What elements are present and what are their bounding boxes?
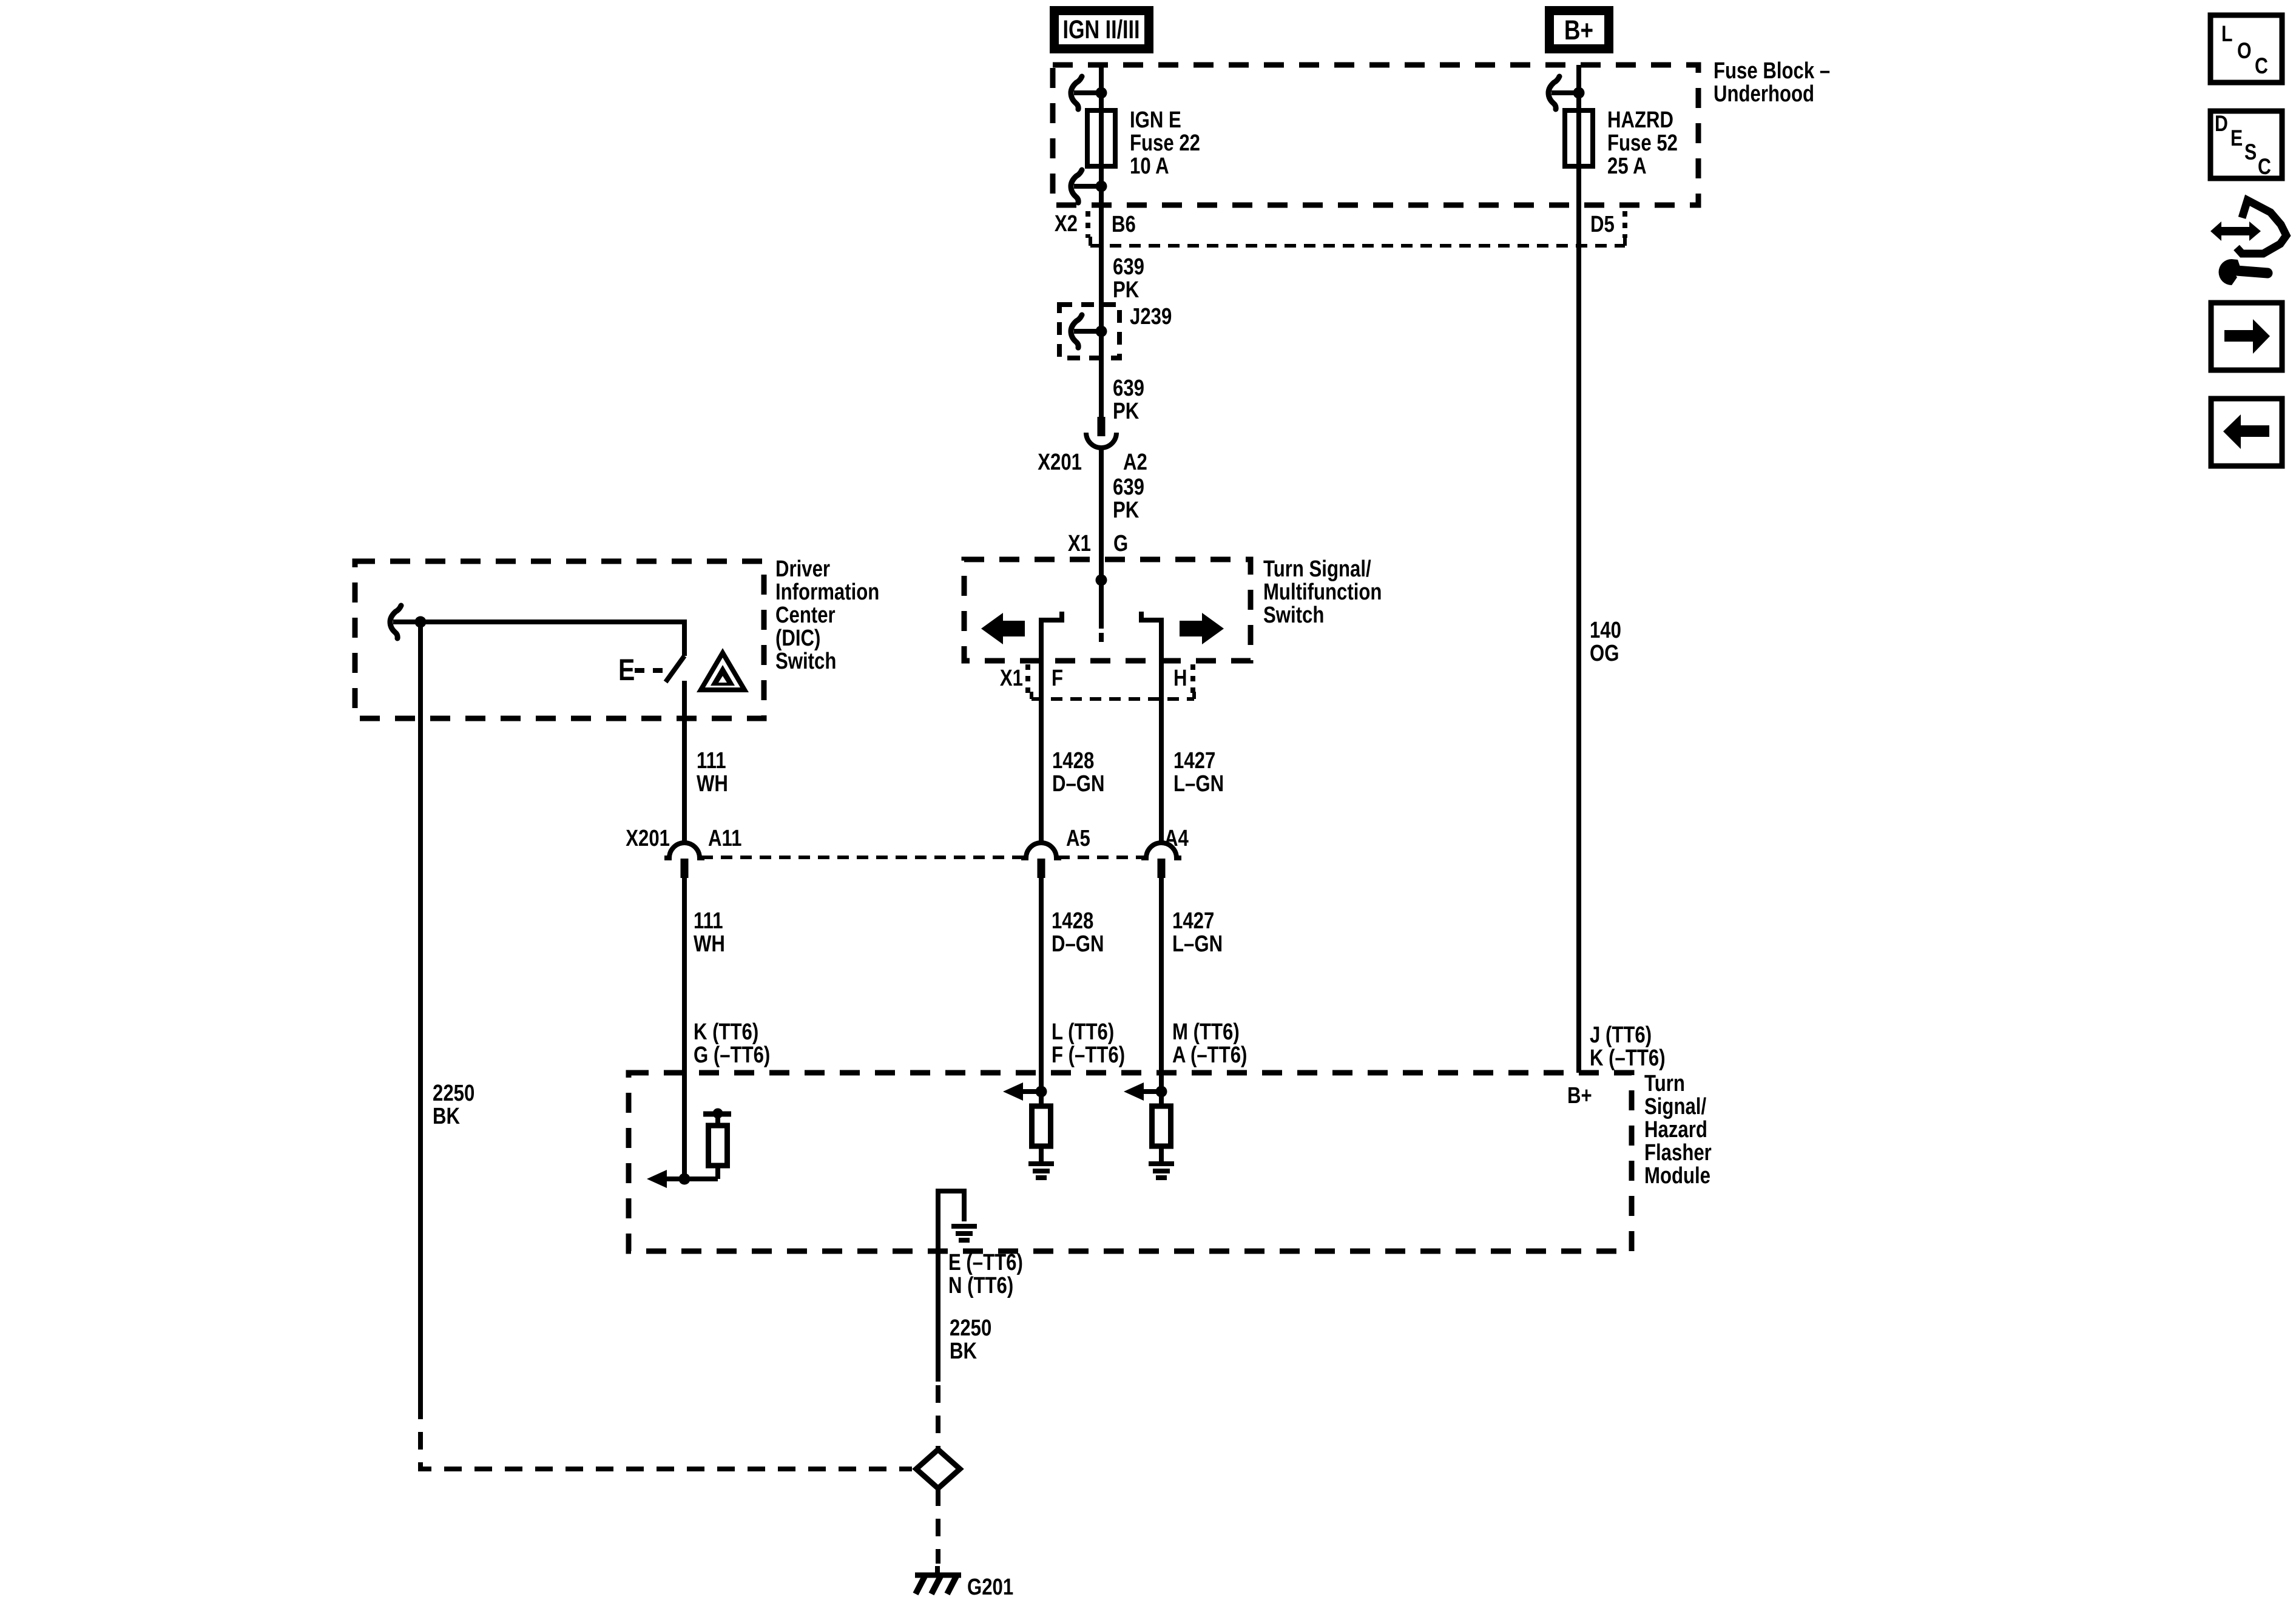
svg-text:A (–TT6): A (–TT6) <box>1172 1042 1247 1068</box>
ground G201 symbol <box>915 1566 961 1594</box>
svg-text:111: 111 <box>694 908 723 934</box>
wire: 2250 BK from module <box>936 1251 940 1382</box>
connector X1 fine dashed boundary <box>1032 692 1194 699</box>
svg-text:C: C <box>2258 154 2271 180</box>
module L branch output arrow <box>1003 1082 1041 1101</box>
svg-text:PK: PK <box>1113 498 1139 523</box>
svg-text:G: G <box>1113 531 1128 556</box>
splice J239 dashed box <box>1059 305 1119 358</box>
svg-text:Fuse 22: Fuse 22 <box>1130 130 1200 156</box>
svg-text:Module: Module <box>1644 1163 1710 1189</box>
splice J239 clamp <box>1071 315 1107 348</box>
svg-text:(DIC): (DIC) <box>775 626 820 651</box>
wire label 639 PK middle <box>1113 376 1144 424</box>
svg-text:BK: BK <box>950 1338 977 1364</box>
legend left arrow box <box>2211 399 2282 466</box>
svg-text:J239: J239 <box>1130 304 1172 329</box>
svg-text:Fuse 52: Fuse 52 <box>1607 130 1678 156</box>
turn signal multifunction switch dashed box <box>964 559 1251 661</box>
clamp tap below fuse 22 <box>1071 170 1107 203</box>
splice diamond <box>916 1450 960 1488</box>
svg-text:O: O <box>2237 38 2252 64</box>
pin label K G <box>694 1019 770 1068</box>
wire label 1428 D-GN upper <box>1052 748 1105 797</box>
dashed wire left corner to splice <box>420 1402 912 1469</box>
switch contact F side <box>1041 612 1062 844</box>
module M branch resistor <box>1152 1106 1171 1146</box>
svg-text:A4: A4 <box>1164 826 1189 851</box>
svg-text:L (TT6): L (TT6) <box>1052 1019 1114 1045</box>
wire: 111 WH lower <box>682 878 687 1179</box>
fuse IGN E Fuse 22 10A <box>1087 110 1115 166</box>
svg-text:1427: 1427 <box>1172 908 1214 934</box>
wire label 639 PK lower <box>1113 474 1144 523</box>
wire: B+ feed vertical at fuse 52 <box>1576 65 1581 1073</box>
svg-text:A11: A11 <box>708 826 741 851</box>
svg-text:E: E <box>618 653 635 687</box>
svg-text:1428: 1428 <box>1052 748 1094 774</box>
wire label 2250 BK left <box>433 1081 474 1129</box>
legend DESC box <box>2210 111 2282 180</box>
fuse HAZRD Fuse 52 25A <box>1565 110 1593 166</box>
svg-text:L–GN: L–GN <box>1172 931 1223 957</box>
svg-text:Hazard: Hazard <box>1644 1117 1707 1143</box>
left turn arrow <box>981 613 1025 644</box>
wire: 1428 D-GN lower <box>1039 878 1044 1106</box>
label Turn Signal/Hazard Flasher Module <box>1644 1071 1712 1189</box>
switch pole wire with junction dot <box>1096 559 1107 642</box>
DIC clamp terminal <box>390 606 427 638</box>
wire label 1427 L-GN lower <box>1172 908 1223 957</box>
wire label 639 PK upper <box>1113 254 1144 303</box>
svg-text:A5: A5 <box>1066 826 1090 851</box>
DIC switch blade (open) <box>666 656 684 682</box>
svg-text:X201: X201 <box>626 826 670 851</box>
connector X201 fine dashed line segment A5-A4 <box>1058 856 1144 859</box>
module M branch output arrow <box>1124 1082 1161 1101</box>
svg-text:D–GN: D–GN <box>1052 771 1105 797</box>
connector X201 A5 cup and pin <box>1021 843 1061 878</box>
dashed wire to splice <box>936 1385 940 1448</box>
svg-text:PK: PK <box>1113 277 1139 303</box>
pin label L F <box>1052 1019 1125 1068</box>
svg-text:J (TT6): J (TT6) <box>1590 1022 1652 1048</box>
svg-text:G (–TT6): G (–TT6) <box>694 1042 770 1068</box>
svg-text:D: D <box>2215 111 2228 137</box>
wire label 1428 D-GN lower <box>1052 908 1104 957</box>
svg-text:639: 639 <box>1113 254 1144 280</box>
legend right arrow box <box>2211 303 2282 370</box>
legend repair icon panel outline <box>2237 200 2286 254</box>
svg-text:25 A: 25 A <box>1607 154 1647 179</box>
svg-text:PK: PK <box>1113 399 1139 424</box>
label IGN E Fuse 22 10 A <box>1130 107 1200 179</box>
wire label 111 WH lower <box>694 908 725 957</box>
wire label 1427 L-GN upper <box>1173 748 1224 797</box>
connector X201 pin A2: female cup <box>1086 433 1116 448</box>
svg-text:WH: WH <box>697 771 728 797</box>
connector X201 row labels <box>626 826 1189 851</box>
module internal ground hook wire <box>938 1191 964 1251</box>
connector X201 A4 cup and pin <box>1141 843 1181 878</box>
wire: left 2250 BK vertical solid <box>418 622 423 1402</box>
svg-text:D–GN: D–GN <box>1052 931 1104 957</box>
svg-text:K (TT6): K (TT6) <box>694 1019 758 1045</box>
svg-text:WH: WH <box>694 931 725 957</box>
module K branch resistor <box>709 1126 728 1166</box>
legend repair icon double arrow <box>2210 221 2261 241</box>
svg-text:B6: B6 <box>1112 212 1136 237</box>
labels X1 G <box>1068 531 1128 556</box>
svg-text:Center: Center <box>775 603 836 628</box>
svg-text:Driver: Driver <box>775 556 830 582</box>
svg-text:A2: A2 <box>1123 450 1147 475</box>
connector X201 pin A2: male pin <box>1098 417 1106 436</box>
module K branch terminal bar with dot <box>703 1109 731 1119</box>
module K branch junction dot <box>679 1173 690 1185</box>
svg-text:140: 140 <box>1590 618 1621 643</box>
svg-text:Multifunction: Multifunction <box>1263 579 1382 605</box>
module L branch resistor <box>1032 1106 1051 1146</box>
module K branch output arrow <box>647 1170 667 1188</box>
connector X2 pin B6 labels <box>1055 211 1136 237</box>
connector X1 F H labels <box>1000 666 1187 691</box>
svg-text:Turn: Turn <box>1644 1071 1685 1096</box>
svg-text:IGN E: IGN E <box>1130 107 1181 133</box>
power feed box B+ <box>1550 11 1609 49</box>
label Fuse Block - Underhood <box>1714 58 1830 107</box>
wire label 111 WH upper <box>697 748 728 797</box>
module L branch ground <box>1028 1146 1054 1178</box>
svg-text:OG: OG <box>1590 641 1619 666</box>
svg-text:M (TT6): M (TT6) <box>1172 1019 1240 1045</box>
svg-text:D5: D5 <box>1590 212 1615 237</box>
pin label E N <box>948 1250 1023 1298</box>
svg-text:S: S <box>2244 140 2257 165</box>
svg-text:Signal/: Signal/ <box>1644 1094 1706 1119</box>
labels X201 A2 <box>1038 450 1147 475</box>
connector D5 dotted separator <box>1622 211 1627 238</box>
module L branch junction dot <box>1036 1086 1047 1098</box>
svg-text:Fuse Block –: Fuse Block – <box>1714 58 1830 84</box>
label HAZRD Fuse 52 25 A <box>1607 107 1678 179</box>
legend LOC box <box>2210 15 2282 83</box>
svg-text:L: L <box>2221 21 2233 47</box>
svg-text:1427: 1427 <box>1173 748 1215 774</box>
svg-text:IGN II/III: IGN II/III <box>1062 15 1140 44</box>
svg-text:HAZRD: HAZRD <box>1607 107 1673 133</box>
label Turn Signal/Multifunction Switch <box>1263 556 1382 628</box>
svg-text:1428: 1428 <box>1052 908 1093 934</box>
svg-text:B+: B+ <box>1567 1083 1592 1109</box>
pin label M A <box>1172 1019 1247 1068</box>
DIC switch feed wire and corner <box>420 622 684 656</box>
svg-text:N (TT6): N (TT6) <box>948 1273 1013 1298</box>
svg-text:Turn Signal/: Turn Signal/ <box>1263 556 1371 582</box>
svg-text:BK: BK <box>433 1104 460 1129</box>
svg-text:H: H <box>1173 666 1187 691</box>
module internal ground symbol <box>951 1226 977 1240</box>
module M branch junction dot <box>1156 1086 1167 1098</box>
svg-text:639: 639 <box>1113 474 1144 500</box>
svg-text:E (–TT6): E (–TT6) <box>948 1250 1023 1275</box>
switch contact H side <box>1141 612 1161 844</box>
svg-text:Switch: Switch <box>775 649 836 674</box>
svg-text:K (–TT6): K (–TT6) <box>1590 1045 1666 1071</box>
connector X201 fine dashed line segment A11-A5 <box>701 856 1024 859</box>
svg-text:111: 111 <box>697 748 726 774</box>
connector X201 A11 cup and pin <box>664 843 704 878</box>
svg-text:Information: Information <box>775 579 879 605</box>
svg-text:E: E <box>2230 126 2243 151</box>
label Driver Information Center (DIC) Switch <box>775 556 879 674</box>
wire: IGN feed vertical (639 PK trunk) <box>1099 65 1104 417</box>
svg-text:G201: G201 <box>967 1575 1013 1600</box>
turn signal hazard flasher module dashed box <box>629 1073 1632 1251</box>
module K branch horizontal wire <box>667 1176 718 1181</box>
svg-text:X1: X1 <box>1068 531 1091 556</box>
DIC switch dashed box <box>355 561 764 718</box>
connector X2 dotted separator <box>1086 211 1090 238</box>
DIC hazard triangle symbol <box>701 653 745 690</box>
svg-text:C: C <box>2255 53 2268 79</box>
connector X1 dotted separators <box>1028 664 1193 695</box>
clamp tap above fuse 52 <box>1548 76 1585 109</box>
svg-text:2250: 2250 <box>950 1315 991 1341</box>
power feed box IGN II/III <box>1055 11 1149 49</box>
svg-text:L–GN: L–GN <box>1173 771 1224 797</box>
pin label J K <box>1590 1022 1666 1071</box>
svg-text:2250: 2250 <box>433 1081 474 1106</box>
module M branch ground <box>1149 1146 1174 1178</box>
clamp tap above fuse 22 <box>1071 76 1107 109</box>
svg-text:X201: X201 <box>1038 450 1082 475</box>
svg-text:X2: X2 <box>1055 211 1078 237</box>
svg-text:Underhood: Underhood <box>1714 81 1814 107</box>
connector X2 fine dashed boundary line <box>1090 237 1625 246</box>
wire: 1427 L-GN lower <box>1159 878 1164 1106</box>
legend repair icon wrench <box>2219 259 2268 285</box>
svg-text:F: F <box>1052 666 1063 691</box>
svg-text:B+: B+ <box>1564 15 1593 46</box>
svg-text:10 A: 10 A <box>1130 154 1169 179</box>
dashed wire splice to ground <box>936 1488 940 1564</box>
module K branch resistor leads <box>715 1114 720 1179</box>
wire: 639 PK below X201 <box>1099 448 1104 559</box>
svg-text:F (–TT6): F (–TT6) <box>1052 1042 1125 1068</box>
wire label 140 OG <box>1590 618 1621 666</box>
svg-text:X1: X1 <box>1000 666 1023 691</box>
right turn arrow <box>1180 613 1224 644</box>
wire label 2250 BK center <box>950 1315 991 1364</box>
svg-text:Flasher: Flasher <box>1644 1140 1712 1166</box>
DIC E dashed link <box>635 668 665 673</box>
svg-text:Switch: Switch <box>1263 603 1324 628</box>
svg-text:639: 639 <box>1113 376 1144 401</box>
fuse block underhood dashed box <box>1053 65 1698 205</box>
wire: DIC output 111 WH <box>682 681 687 844</box>
